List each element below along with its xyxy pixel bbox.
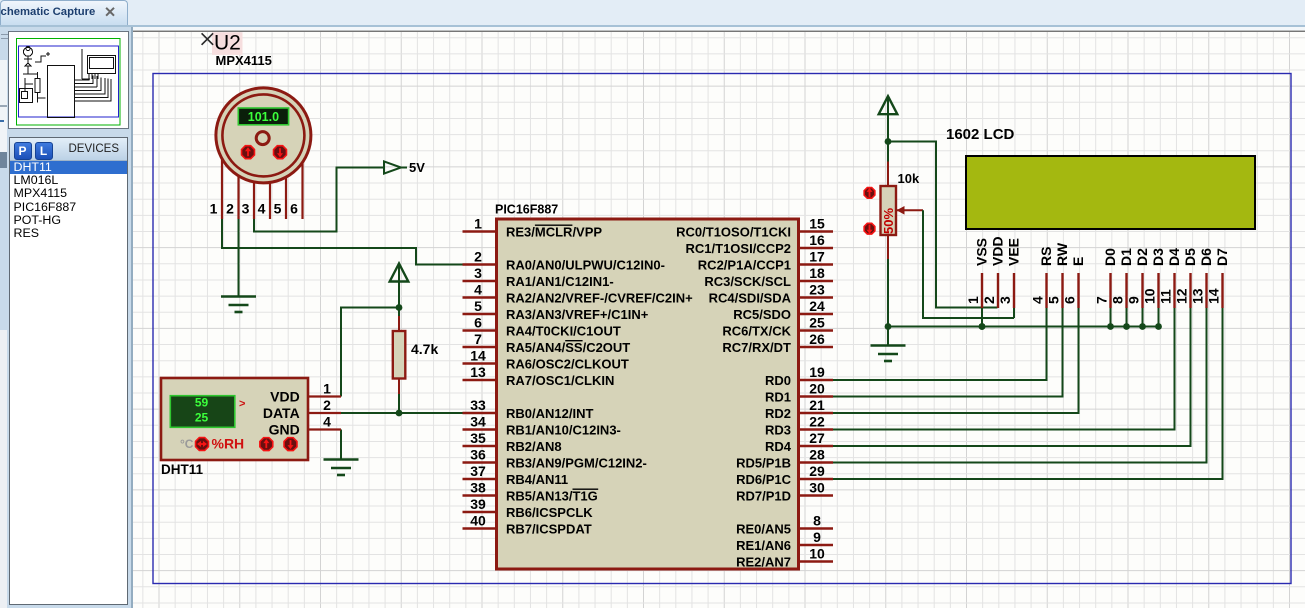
svg-text:25: 25: [809, 315, 825, 331]
svg-text:36: 36: [470, 447, 486, 463]
svg-text:6: 6: [1062, 296, 1078, 304]
svg-text:RE1/AN6: RE1/AN6: [736, 538, 791, 553]
svg-text:D6: D6: [1198, 248, 1214, 266]
svg-text:RE2/AN7: RE2/AN7: [736, 554, 791, 569]
svg-text:GND: GND: [269, 422, 300, 438]
svg-text:9: 9: [813, 529, 821, 545]
svg-text:%RH: %RH: [212, 436, 245, 452]
svg-text:RD2: RD2: [765, 406, 791, 421]
svg-text:39: 39: [470, 496, 486, 512]
svg-text:DHT11: DHT11: [161, 462, 204, 477]
svg-text:9: 9: [1126, 296, 1142, 304]
svg-text:38: 38: [470, 480, 486, 496]
svg-text:RC2/P1A/CCP1: RC2/P1A/CCP1: [698, 257, 791, 272]
svg-text:19: 19: [809, 364, 825, 380]
svg-text:MPX4115: MPX4115: [216, 53, 272, 68]
svg-text:50%: 50%: [881, 208, 896, 234]
svg-text:RC0/T1OSO/T1CKI: RC0/T1OSO/T1CKI: [676, 224, 791, 239]
svg-text:8: 8: [813, 513, 821, 529]
svg-text:22: 22: [809, 414, 825, 430]
svg-text:RE0/AN5: RE0/AN5: [736, 521, 791, 536]
svg-text:D4: D4: [1166, 248, 1182, 266]
svg-text:RD1: RD1: [765, 389, 791, 404]
svg-text:D3: D3: [1150, 248, 1166, 266]
svg-text:RA4/T0CKI/C1OUT: RA4/T0CKI/C1OUT: [506, 323, 621, 338]
svg-text:2: 2: [981, 296, 997, 304]
svg-text:6: 6: [290, 201, 298, 217]
svg-text:D0: D0: [1102, 248, 1118, 266]
svg-text:59: 59: [195, 396, 209, 410]
svg-text:RC3/SCK/SCL: RC3/SCK/SCL: [704, 274, 791, 289]
svg-text:27: 27: [809, 430, 825, 446]
svg-text:RE3/MCLR/VPP: RE3/MCLR/VPP: [506, 224, 602, 239]
svg-text:5: 5: [474, 298, 482, 314]
svg-text:21: 21: [809, 397, 825, 413]
svg-text:RA5/AN4/SS/C2OUT: RA5/AN4/SS/C2OUT: [506, 340, 630, 355]
svg-text:RD5/P1B: RD5/P1B: [736, 455, 791, 470]
svg-text:D2: D2: [1134, 248, 1150, 266]
svg-text:RC1/T1OSI/CCP2: RC1/T1OSI/CCP2: [686, 241, 791, 256]
svg-text:VSS: VSS: [974, 238, 990, 266]
svg-text:VDD: VDD: [270, 389, 300, 405]
svg-text:RC5/SDO: RC5/SDO: [733, 307, 791, 322]
svg-text:RC6/TX/CK: RC6/TX/CK: [722, 323, 791, 338]
svg-text:3: 3: [242, 201, 250, 217]
svg-text:RB2/AN8: RB2/AN8: [506, 439, 562, 454]
svg-text:VEE: VEE: [1006, 238, 1022, 266]
svg-text:D1: D1: [1118, 248, 1134, 266]
svg-text:5: 5: [274, 201, 282, 217]
svg-text:12: 12: [1174, 288, 1190, 304]
svg-text:1: 1: [210, 201, 218, 217]
svg-text:30: 30: [809, 480, 825, 496]
svg-text:25: 25: [195, 411, 209, 425]
svg-text:10k: 10k: [898, 171, 920, 186]
svg-text:23: 23: [809, 282, 825, 298]
svg-text:RC7/RX/DT: RC7/RX/DT: [722, 340, 791, 355]
svg-text:E: E: [1070, 257, 1086, 266]
svg-text:RB1/AN10/C12IN3-: RB1/AN10/C12IN3-: [506, 422, 621, 437]
svg-text:°C: °C: [180, 437, 194, 451]
svg-text:15: 15: [809, 216, 825, 232]
svg-text:1: 1: [965, 296, 981, 304]
svg-text:13: 13: [470, 364, 486, 380]
svg-text:RB5/AN13/T1G: RB5/AN13/T1G: [506, 488, 598, 503]
svg-text:RB6/ICSPCLK: RB6/ICSPCLK: [506, 505, 593, 520]
svg-text:20: 20: [809, 381, 825, 397]
svg-text:4: 4: [474, 282, 482, 298]
svg-text:7: 7: [1094, 296, 1110, 304]
svg-text:40: 40: [470, 513, 486, 529]
svg-text:PIC16F887: PIC16F887: [495, 203, 558, 217]
svg-text:RA0/AN0/ULPWU/C12IN0-: RA0/AN0/ULPWU/C12IN0-: [506, 257, 665, 272]
svg-text:14: 14: [470, 348, 486, 364]
svg-text:RD7/P1D: RD7/P1D: [736, 488, 791, 503]
svg-text:101.0: 101.0: [248, 110, 279, 124]
svg-text:6: 6: [474, 315, 482, 331]
svg-text:5: 5: [1046, 296, 1062, 304]
svg-text:2: 2: [323, 397, 331, 413]
svg-text:34: 34: [470, 414, 486, 430]
svg-text:RD0: RD0: [765, 373, 791, 388]
svg-text:RD6/P1C: RD6/P1C: [736, 472, 792, 487]
svg-text:1: 1: [323, 381, 331, 397]
svg-text:3: 3: [997, 296, 1013, 304]
svg-text:10: 10: [809, 546, 825, 562]
svg-text:RS: RS: [1038, 247, 1054, 266]
svg-text:RA1/AN1/C12IN1-: RA1/AN1/C12IN1-: [506, 274, 614, 289]
svg-text:RB4/AN11: RB4/AN11: [506, 472, 568, 487]
svg-text:RC4/SDI/SDA: RC4/SDI/SDA: [709, 290, 792, 305]
svg-text:13: 13: [1190, 288, 1206, 304]
svg-text:2: 2: [226, 201, 234, 217]
svg-text:8: 8: [1110, 296, 1126, 304]
svg-text:4: 4: [323, 414, 331, 430]
svg-text:17: 17: [809, 249, 825, 265]
svg-text:RD3: RD3: [765, 422, 791, 437]
svg-text:D5: D5: [1182, 248, 1198, 266]
svg-text:24: 24: [809, 298, 825, 314]
svg-text:16: 16: [809, 232, 825, 248]
svg-text:RW: RW: [1054, 242, 1070, 266]
svg-text:4: 4: [1030, 296, 1046, 304]
svg-text:4: 4: [258, 201, 266, 217]
svg-text:3: 3: [474, 265, 482, 281]
svg-text:RB3/AN9/PGM/C12IN2-: RB3/AN9/PGM/C12IN2-: [506, 455, 647, 470]
svg-text:18: 18: [809, 265, 825, 281]
svg-text:35: 35: [470, 430, 486, 446]
svg-text:RA2/AN2/VREF-/CVREF/C2IN+: RA2/AN2/VREF-/CVREF/C2IN+: [506, 290, 693, 305]
svg-text:5V: 5V: [409, 160, 425, 175]
svg-text:DATA: DATA: [263, 405, 300, 421]
svg-text:RB7/ICSPDAT: RB7/ICSPDAT: [506, 521, 592, 536]
svg-text:RB0/AN12/INT: RB0/AN12/INT: [506, 406, 593, 421]
svg-text:RA3/AN3/VREF+/C1IN+: RA3/AN3/VREF+/C1IN+: [506, 307, 649, 322]
svg-text:RD4: RD4: [765, 439, 792, 454]
svg-text:14: 14: [1206, 288, 1222, 304]
svg-text:37: 37: [470, 463, 486, 479]
svg-text:1602 LCD: 1602 LCD: [946, 126, 1015, 143]
svg-text:U2: U2: [214, 32, 241, 55]
svg-text:RA7/OSC1/CLKIN: RA7/OSC1/CLKIN: [506, 373, 614, 388]
svg-text:10: 10: [1142, 288, 1158, 304]
svg-text:RA6/OSC2/CLKOUT: RA6/OSC2/CLKOUT: [506, 356, 629, 371]
svg-text:29: 29: [809, 463, 825, 479]
svg-text:D7: D7: [1214, 248, 1230, 266]
svg-text:28: 28: [809, 447, 825, 463]
svg-text:VDD: VDD: [990, 236, 1006, 266]
svg-text:33: 33: [470, 397, 486, 413]
svg-text:2: 2: [474, 249, 482, 265]
svg-text:7: 7: [474, 331, 482, 347]
svg-text:4.7k: 4.7k: [411, 341, 438, 357]
svg-text:11: 11: [1158, 289, 1174, 304]
svg-text:26: 26: [809, 331, 825, 347]
svg-text:1: 1: [474, 216, 482, 232]
svg-text:>: >: [239, 398, 245, 410]
